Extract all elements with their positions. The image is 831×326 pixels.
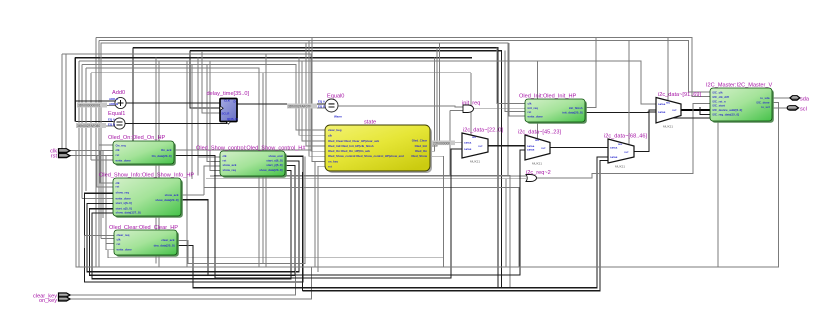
svg-text:start_y[5..0]: start_y[5..0] bbox=[116, 206, 132, 210]
svg-text:EQ B: EQ B bbox=[108, 123, 115, 127]
svg-text:clear_beg: clear_beg bbox=[328, 128, 342, 132]
svg-text:sda: sda bbox=[800, 96, 810, 102]
svg-text:SCLR: SCLR bbox=[222, 112, 231, 116]
svg-text:rst: rst bbox=[116, 185, 120, 189]
svg-text:show_ack: show_ack bbox=[223, 163, 237, 167]
svg-text:Oled_On:Oled_On_HP: Oled_On:Oled_On_HP bbox=[108, 135, 165, 141]
svg-text:Equal0: Equal0 bbox=[327, 94, 344, 100]
svg-text:i2c_data~[45..23]: i2c_data~[45..23] bbox=[518, 130, 562, 136]
svg-text:i2c_data~[91..69]: i2c_data~[91..69] bbox=[658, 92, 702, 98]
svg-text:Q[35..0]: Q[35..0] bbox=[227, 117, 238, 121]
svg-text:SEL: SEL bbox=[666, 103, 671, 105]
svg-text:dea_data[20..0]: dea_data[20..0] bbox=[154, 243, 175, 247]
svg-text:io_sda: io_sda bbox=[760, 96, 770, 100]
svg-text:Oled_Show_control:Oled_Show_co: Oled_Show_control:Oled_Show_control_HP|s… bbox=[328, 154, 404, 158]
svg-text:clk: clk bbox=[117, 238, 121, 242]
svg-text:I2C_done: I2C_done bbox=[756, 101, 769, 105]
svg-text:36'h000000001: 36'h000000001 bbox=[78, 104, 101, 108]
svg-text:DATAB: DATAB bbox=[658, 111, 666, 114]
svg-text:write_done: write_done bbox=[116, 248, 133, 252]
svg-text:Oled_On: Oled_On bbox=[415, 149, 427, 153]
svg-text:i2c_data~[22..0]: i2c_data~[22..0] bbox=[463, 128, 503, 134]
svg-text:DATAB: DATAB bbox=[610, 156, 618, 159]
svg-text:show_req: show_req bbox=[223, 168, 237, 172]
svg-text:clk: clk bbox=[328, 133, 332, 137]
svg-text:SEL: SEL bbox=[618, 144, 623, 146]
svg-text:Add0: Add0 bbox=[112, 90, 125, 96]
svg-text:DATAA: DATAA bbox=[610, 147, 618, 150]
svg-text:23'h000000: 23'h000000 bbox=[433, 141, 450, 145]
svg-text:D: D bbox=[234, 100, 236, 104]
svg-text:show_req: show_req bbox=[116, 191, 130, 195]
svg-text:write_done: write_done bbox=[115, 197, 132, 201]
svg-text:Warm: Warm bbox=[334, 114, 342, 118]
svg-text:clear_ack: clear_ack bbox=[161, 238, 175, 242]
svg-text:clear_req: clear_req bbox=[117, 233, 130, 237]
svg-text:I2C_clk_diff: I2C_clk_diff bbox=[713, 95, 729, 99]
svg-text:on_key: on_key bbox=[39, 298, 57, 304]
svg-text:DATAB: DATAB bbox=[464, 148, 472, 151]
svg-text:scl: scl bbox=[800, 106, 807, 112]
svg-text:Oled_Init: Oled_Init bbox=[415, 144, 427, 148]
svg-text:OUT: OUT bbox=[624, 152, 629, 154]
svg-text:Oled_On:Oled_On_HP|On_ack: Oled_On:Oled_On_HP|On_ack bbox=[328, 149, 370, 153]
svg-text:ADD A: ADD A bbox=[109, 97, 119, 101]
svg-text:DATAA: DATAA bbox=[464, 142, 472, 145]
svg-text:MUX21: MUX21 bbox=[532, 162, 542, 166]
svg-text:I2C_clk: I2C_clk bbox=[713, 91, 724, 95]
svg-text:delay_time[35..0]: delay_time[35..0] bbox=[207, 91, 250, 97]
svg-text:init_finish: init_finish bbox=[569, 106, 583, 110]
svg-text:I2C_rst_n: I2C_rst_n bbox=[713, 99, 726, 103]
svg-text:DATAA: DATAA bbox=[527, 145, 535, 148]
svg-text:36'h002FAF080: 36'h002FAF080 bbox=[77, 124, 100, 128]
svg-text:Oled_Show: Oled_Show bbox=[411, 154, 427, 158]
svg-text:Oled_Init:Oled_Init_HP|clk_fin: Oled_Init:Oled_Init_HP|clk_finish bbox=[328, 144, 374, 148]
svg-text:OUT: OUT bbox=[478, 146, 483, 148]
svg-text:SEL: SEL bbox=[472, 137, 477, 139]
svg-text:Equal1: Equal1 bbox=[108, 111, 125, 117]
svg-text:show_data[20..0]: show_data[20..0] bbox=[155, 198, 178, 202]
svg-text:OUT: OUT bbox=[672, 110, 677, 112]
svg-text:DATAB: DATAB bbox=[527, 149, 535, 152]
svg-text:i2c_data~[68..46]: i2c_data~[68..46] bbox=[604, 134, 648, 140]
svg-text:EQ A: EQ A bbox=[318, 100, 326, 104]
svg-text:36'h002FAF07F: 36'h002FAF07F bbox=[288, 105, 311, 109]
svg-text:rst: rst bbox=[223, 159, 227, 163]
svg-text:EQ A: EQ A bbox=[108, 118, 116, 122]
svg-text:show_data[23..0]: show_data[23..0] bbox=[259, 168, 282, 172]
svg-text:rst: rst bbox=[328, 164, 332, 168]
svg-text:I2C_device_addr[6..0]: I2C_device_addr[6..0] bbox=[713, 108, 743, 112]
svg-text:I2C_reg_data[15..0]: I2C_reg_data[15..0] bbox=[713, 113, 740, 117]
svg-text:EQ B: EQ B bbox=[318, 105, 325, 109]
svg-text:start_x[6..0]: start_x[6..0] bbox=[266, 159, 282, 163]
svg-text:Oled_Clear: Oled_Clear bbox=[412, 139, 428, 143]
svg-text:On_req: On_req bbox=[116, 143, 126, 147]
svg-text:init_data[20..0]: init_data[20..0] bbox=[562, 111, 582, 115]
svg-text:write_done: write_done bbox=[115, 158, 132, 162]
svg-text:rst: rst bbox=[116, 153, 120, 157]
svg-text:On_data[20..0]: On_data[20..0] bbox=[152, 154, 172, 158]
svg-text:Oled_Clear:Oled_Clear_HP|clear: Oled_Clear:Oled_Clear_HP|clear_ack bbox=[328, 139, 379, 143]
svg-text:on_key: on_key bbox=[328, 160, 338, 164]
svg-text:show_data[127..0]: show_data[127..0] bbox=[116, 211, 141, 215]
svg-text:OUT: OUT bbox=[541, 148, 546, 150]
svg-text:clk: clk bbox=[116, 148, 120, 152]
svg-text:CLK: CLK bbox=[224, 99, 231, 103]
svg-text:show_ack: show_ack bbox=[165, 193, 179, 197]
svg-text:write_done: write_done bbox=[527, 114, 544, 118]
svg-text:io_scl: io_scl bbox=[761, 105, 769, 109]
svg-text:ADD B: ADD B bbox=[109, 102, 118, 106]
svg-text:On_ack: On_ack bbox=[161, 148, 172, 152]
svg-text:I2C_start: I2C_start bbox=[713, 104, 725, 108]
svg-text:start_y[5..0]: start_y[5..0] bbox=[266, 163, 282, 167]
svg-text:DATAA: DATAA bbox=[658, 103, 666, 106]
svg-text:MUX21: MUX21 bbox=[470, 160, 480, 164]
svg-text:MUX21: MUX21 bbox=[615, 165, 625, 169]
svg-text:rst: rst bbox=[117, 242, 121, 246]
svg-text:MUX21: MUX21 bbox=[663, 125, 673, 129]
svg-text:start_x[6..0]: start_x[6..0] bbox=[116, 201, 132, 205]
svg-text:rst: rst bbox=[51, 154, 58, 160]
svg-text:SEL: SEL bbox=[535, 140, 540, 142]
svg-text:clk: clk bbox=[223, 154, 227, 158]
svg-text:show_end: show_end bbox=[268, 154, 282, 158]
